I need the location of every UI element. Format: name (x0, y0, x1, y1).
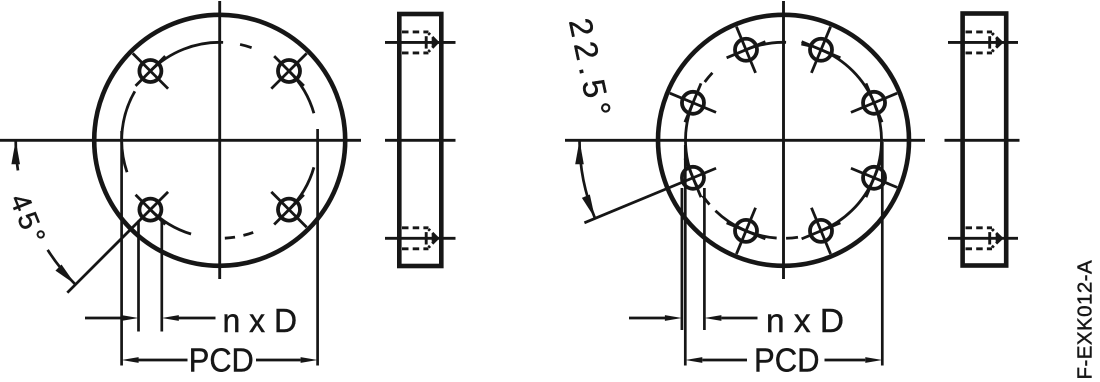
left flange outer circle (94, 15, 345, 266)
left PCD dimension line left (139, 359, 188, 362)
svg-text:F-EXK012-A: F-EXK012-A (1074, 260, 1097, 380)
hidden hole thread line (dashed vertical) (425, 232, 428, 244)
left flange pitch circle dash -76 to -70 (243, 232, 253, 235)
45 deg dimension arrowhead at leader line (55, 265, 75, 285)
right PCD dimension line right (825, 359, 866, 362)
hole radial centermark 157.5 deg (670, 93, 716, 112)
right flange pitch circle arc 157.5 to 209 (686, 103, 698, 188)
svg-text:PCD: PCD (189, 342, 254, 379)
hole perpendicular centermark 135 deg (136, 56, 166, 86)
left PCD dimension line right (256, 359, 301, 362)
right flange pitch circle dash 73.5 to 79.5 (801, 44, 811, 46)
left side view middle centerline (385, 139, 456, 142)
right PCD arrowhead right (865, 357, 882, 363)
45 deg dimension arc lower segment (48, 250, 76, 285)
right side view middle centerline (945, 139, 1020, 142)
bolt hole at 22.5 deg (863, 92, 885, 114)
hole radial centermark 67.5 deg (811, 27, 830, 73)
hidden hole upper wall (dashed) (402, 30, 429, 33)
left side view bottom hole centerline (385, 237, 456, 240)
right n x D dimension tail right (721, 317, 757, 320)
hole radial centermark 112.5 deg (736, 27, 755, 73)
right PCD dimension line left (702, 359, 747, 362)
left PCD arrowhead right (301, 357, 318, 363)
left flange pitch circle arc 16 to 45 (289, 71, 314, 113)
hole perpendicular centermark 67.5 deg (802, 42, 841, 58)
hole radial centermark 22.5 deg (851, 93, 897, 112)
hidden hole thread line (dashed vertical) (988, 36, 991, 48)
hole perpendicular centermark 225 deg (136, 195, 166, 225)
hidden hole cone lower (dashed) (992, 238, 1002, 247)
right flange outer circle (658, 15, 909, 266)
svg-text:n x D: n x D (223, 302, 298, 339)
45 deg dimension arc upper segment (16, 140, 18, 170)
bolt hole at 202.5 deg (682, 167, 704, 189)
22.5 deg dimension arrowhead at horizontal centerline (575, 140, 584, 164)
left flange pitch circle arc 150 to 199 (122, 91, 135, 172)
hole perpendicular centermark 157.5 deg (685, 83, 701, 122)
svg-text:22.5°: 22.5° (562, 15, 619, 125)
bolt hole at 112.5 deg (735, 39, 757, 61)
right n x D arrowhead right (704, 315, 721, 321)
right hole-diameter extension line left (681, 188, 684, 330)
hidden hole thread line (dashed vertical) (988, 232, 991, 244)
hole perpendicular centermark 337.5 deg (866, 158, 882, 197)
hidden hole cone upper (dashed) (429, 229, 438, 238)
hidden hole cone upper (dashed) (992, 229, 1002, 238)
right flange pitch circle arc -67.5 to 22.5 (821, 103, 881, 231)
left PCD extension line left (120, 131, 123, 366)
left flange horizontal centerline (0, 139, 361, 142)
hole perpendicular centermark 292.5 deg (802, 223, 841, 239)
hole perpendicular centermark 315 deg (274, 195, 304, 225)
right hole-diameter extension line right (703, 188, 706, 330)
bolt hole at 225 deg (139, 199, 161, 221)
hidden hole cone apex blob (432, 235, 439, 242)
bolt hole at 247.5 deg (735, 220, 757, 242)
bolt hole at 315 deg (278, 199, 300, 221)
left hole-diameter extension line right (160, 221, 163, 332)
hidden hole cone lower (dashed) (429, 42, 438, 51)
hidden hole cone upper (dashed) (992, 33, 1002, 42)
right PCD arrowhead left (685, 357, 702, 363)
right flange pitch circle arc -134 to -94 (715, 211, 776, 238)
right n x D arrowhead left (665, 315, 682, 321)
hidden hole lower wall (dashed) (966, 51, 993, 54)
right side view bottom hole centerline (948, 237, 1018, 240)
hole radial centermark 247.5 deg (736, 208, 755, 254)
right side view flange outline (963, 14, 1007, 266)
hole radial centermark 337.5 deg (851, 168, 897, 187)
hole radial centermark 315 deg (271, 192, 306, 227)
svg-text:n x D: n x D (766, 302, 844, 339)
left flange vertical centerline (218, 1, 221, 279)
hidden hole upper wall (dashed) (966, 226, 993, 229)
hidden hole lower wall (dashed) (402, 51, 429, 54)
22.5 deg dimension arrowhead at leader line (582, 195, 595, 219)
22.5 deg dimension arc (580, 140, 596, 218)
right PCD extension line right (881, 142, 884, 366)
bolt hole at 67.5 deg (810, 39, 832, 61)
left n x D dimension tail left (85, 317, 122, 320)
hole radial centermark 45 deg (271, 53, 306, 88)
left flange pitch circle arc -45 to -16 (289, 167, 314, 209)
hidden hole upper wall (dashed) (402, 226, 429, 229)
hidden hole cone apex blob (996, 235, 1003, 242)
hole radial centermark 202.5 deg (584, 168, 716, 223)
hole radial centermark 292.5 deg (811, 208, 830, 254)
hidden hole cone apex blob (996, 39, 1003, 46)
right PCD extension line left (684, 145, 687, 366)
hole radial centermark 225 deg (67, 192, 168, 293)
bolt hole at 337.5 deg (863, 167, 885, 189)
bolt hole at 292.5 deg (810, 220, 832, 242)
right flange pitch circle dash -145.5 to -139 (703, 196, 710, 205)
bolt hole at 157.5 deg (682, 92, 704, 114)
bolt hole at 135 deg (139, 60, 161, 82)
left hole-diameter extension line left (137, 221, 140, 332)
svg-text:PCD: PCD (754, 342, 820, 379)
right flange pitch circle arc 88.5 to 112.5 (746, 42, 786, 49)
hidden hole cone lower (dashed) (429, 238, 438, 247)
hole perpendicular centermark 22.5 deg (866, 83, 882, 122)
hidden hole lower wall (dashed) (402, 247, 429, 250)
right n x D dimension tail left (629, 317, 665, 320)
left flange pitch circle dash -87 to -81 (225, 237, 235, 238)
left flange pitch circle arc -135 to -107 (150, 210, 191, 234)
hole perpendicular centermark 202.5 deg (685, 158, 701, 197)
hidden hole lower wall (dashed) (966, 247, 993, 250)
left n x D arrowhead left (122, 315, 139, 321)
hidden hole cone lower (dashed) (992, 42, 1002, 51)
hidden hole cone apex blob (432, 39, 439, 46)
hole perpendicular centermark 112.5 deg (727, 42, 766, 58)
left side view flange outline (399, 14, 441, 266)
hole perpendicular centermark 45 deg (274, 56, 304, 86)
hidden hole thread line (dashed vertical) (425, 36, 428, 48)
left n x D dimension tail right (179, 317, 216, 320)
left n x D arrowhead right (162, 315, 179, 321)
right flange pitch circle arc 22.5 to 67.5 (821, 50, 874, 103)
right flange vertical centerline (782, 1, 785, 279)
left PCD extension line right (316, 129, 319, 366)
left side view top hole centerline (385, 41, 456, 44)
right flange horizontal centerline (565, 139, 925, 142)
left flange pitch circle dash 71 to 78 (240, 44, 252, 47)
45 deg dimension arrowhead at horizontal centerline (11, 140, 20, 164)
hole radial centermark 135 deg (133, 53, 168, 88)
right side view top hole centerline (948, 41, 1018, 44)
hidden hole cone upper (dashed) (429, 33, 438, 42)
bolt hole at 45 deg (278, 60, 300, 82)
svg-text:45°: 45° (4, 190, 53, 252)
hidden hole upper wall (dashed) (966, 30, 993, 33)
left PCD arrowhead left (122, 357, 139, 363)
right flange pitch circle dash -88.5 to -81.5 (786, 237, 798, 238)
hole perpendicular centermark 247.5 deg (727, 223, 766, 239)
left flange pitch circle arc 88 to 135 (150, 42, 223, 71)
right flange pitch circle dash 136.5 to 143.5 (705, 73, 713, 82)
